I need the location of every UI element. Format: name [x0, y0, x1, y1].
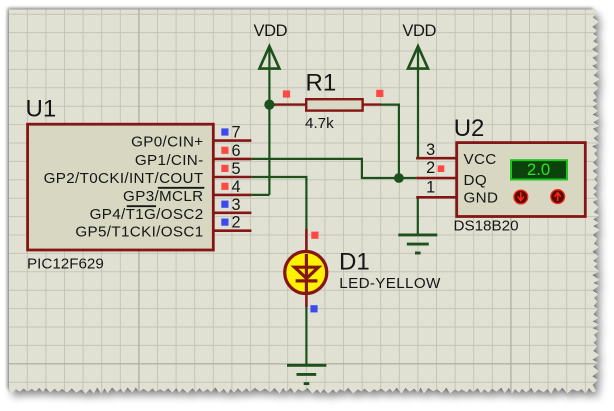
svg-text:LED-YELLOW: LED-YELLOW — [339, 275, 441, 292]
svg-text:VDD: VDD — [253, 22, 287, 40]
wire R1 left lead to junction — [269, 103, 276, 105]
svg-text:5: 5 — [232, 160, 241, 178]
svg-text:4.7k: 4.7k — [305, 115, 334, 132]
U1 pin 6 stub — [215, 158, 252, 161]
node junction dot at VDD1/R1-left (269,104) — [264, 100, 274, 110]
resistor R1 body — [306, 99, 362, 110]
U2 DQ pin state square (red) — [438, 165, 445, 172]
U2 pin 1 stub — [416, 196, 456, 199]
U1 pin 7 stub — [215, 139, 252, 142]
U1 pin 2 stub — [215, 229, 252, 232]
svg-text:2.0: 2.0 — [527, 160, 550, 179]
U1 T1G overline — [127, 205, 156, 207]
svg-text:1: 1 — [426, 178, 435, 196]
svg-text:VDD: VDD — [402, 22, 436, 40]
U1 MCLR overline — [158, 187, 205, 189]
ground symbol under U2 — [398, 235, 437, 253]
svg-text:7: 7 — [232, 124, 241, 142]
power symbol VDD (right) — [402, 22, 436, 69]
svg-text:U2: U2 — [454, 115, 485, 142]
LED D1 top pin lead — [305, 229, 308, 253]
R1 right pin square — [376, 90, 383, 97]
U2 temp-down button — [514, 190, 528, 204]
U2 temperature display — [511, 160, 567, 179]
U1 pin 3 state square — [221, 201, 228, 208]
svg-text:GND: GND — [464, 189, 499, 206]
svg-text:2: 2 — [426, 159, 435, 177]
wire VDD1 net: vertical from left VDD symbol down to GP3 row, left to pin 4 — [251, 47, 269, 195]
svg-text:VCC: VCC — [464, 151, 497, 168]
svg-text:D1: D1 — [339, 249, 370, 276]
svg-text:GP5/T1CKI/OSC1: GP5/T1CKI/OSC1 — [75, 224, 203, 241]
LED D1 body circle — [285, 252, 327, 294]
node junction dot on DQ net (399,178) — [394, 173, 404, 183]
svg-text:6: 6 — [232, 142, 241, 160]
svg-text:DS18B20: DS18B20 — [454, 217, 519, 234]
svg-text:GP3/MCLR: GP3/MCLR — [123, 188, 203, 205]
ground symbol under LED D1 — [287, 365, 326, 383]
LED D1 bottom pin square (blue) — [310, 305, 317, 312]
wire GP1/CIN- (pin 6) to U2 DQ: right, jog down, right — [251, 159, 416, 178]
svg-text:DQ: DQ — [464, 172, 487, 189]
svg-text:PIC12F629: PIC12F629 — [27, 256, 104, 273]
svg-text:2: 2 — [232, 214, 241, 232]
U2 pin 3 stub — [416, 157, 456, 160]
wire R1 right to DQ net: right then down — [381, 105, 399, 178]
svg-text:GP0/CIN+: GP0/CIN+ — [131, 134, 203, 151]
LED D1 diode symbol — [295, 254, 319, 292]
wire GP2 (pin 5) to LED D1 anode: right then down — [251, 177, 306, 229]
U1 pin 6 state square — [221, 147, 228, 154]
U2 temp-up button — [551, 190, 565, 204]
svg-text:4: 4 — [232, 178, 241, 196]
svg-text:GP4/T1G/OSC2: GP4/T1G/OSC2 — [90, 206, 204, 223]
LED D1 bottom pin lead — [305, 293, 308, 307]
svg-text:3: 3 — [232, 196, 241, 214]
wire VDD2 vertical down to U2 VCC — [416, 47, 418, 159]
wire U2 GND down to ground — [417, 197, 419, 234]
U2 pin 2 stub — [416, 177, 456, 180]
svg-text:GP1/CIN-: GP1/CIN- — [135, 152, 204, 169]
svg-text:R1: R1 — [306, 69, 337, 96]
IC U1 PIC12F629 body — [28, 124, 214, 250]
resistor R1 pin leads — [275, 103, 381, 105]
svg-text:U1: U1 — [26, 96, 57, 123]
power symbol VDD (left) — [253, 22, 287, 69]
svg-text:GP2/T0CKI/INT/COUT: GP2/T0CKI/INT/COUT — [44, 170, 204, 187]
U1 pin 4 state square — [221, 183, 228, 190]
sensor U2 DS18B20 body — [457, 143, 586, 217]
wire LED D1 cathode down to ground — [305, 306, 307, 365]
svg-text:3: 3 — [426, 141, 435, 159]
U1 pin 3 stub — [215, 212, 252, 215]
U1 pin 4 stub — [215, 194, 252, 197]
U1 pin 5 stub — [215, 176, 252, 179]
R1 left pin square — [283, 90, 290, 97]
U1 pin 2 state square — [221, 219, 228, 226]
LED D1 top pin square (red) — [311, 232, 318, 239]
U1 pin 7 state square — [221, 128, 228, 135]
U1 pin 5 state square — [221, 165, 228, 172]
